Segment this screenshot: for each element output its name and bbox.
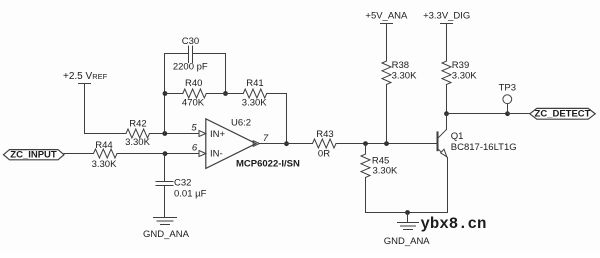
svg-text:GND_ANA: GND_ANA [384,236,431,247]
wire R43 to Q1 base [336,143,437,145]
svg-text:C32: C32 [174,177,191,188]
svg-text:3.30K: 3.30K [125,137,150,148]
svg-text:7: 7 [263,133,269,144]
junction R45 tap [363,141,368,146]
capacitor C32 [156,182,173,186]
power symbol +5V_ANA [365,10,408,23]
wire node to R40 [165,93,183,95]
power symbol +3.3V_DIG [423,10,470,23]
junction ground tap [405,210,410,215]
wire C30 top right [193,53,226,55]
wire R44 to IN- node [117,153,199,155]
junction feedback left [163,91,168,96]
wire emitter down [447,158,449,213]
wire R38 to base node [386,85,388,144]
capacitor C30 [189,46,193,63]
wire +3.3V_DIG to R39 [446,24,448,62]
svg-text:C30: C30 [182,36,199,47]
junction R38 tap [384,141,389,146]
svg-text:5: 5 [191,122,197,133]
wire R42 to IN+ node [150,133,200,135]
svg-text:3.30K: 3.30K [452,70,477,81]
net flag ZC_DETECT [530,108,595,119]
wire VREF to R42 [85,133,127,135]
svg-text:ybx8.cn: ybx8.cn [421,215,487,233]
wire collector node to TP3 node [447,113,508,115]
svg-text:ZC_INPUT: ZC_INPUT [10,150,57,161]
svg-text:R44: R44 [95,140,112,151]
svg-text:ZC_DETECT: ZC_DETECT [535,109,591,120]
svg-text:6: 6 [192,142,198,153]
svg-text:3.30K: 3.30K [373,166,398,177]
wire feedback to output node [286,94,288,144]
wire C32 to ground [164,186,166,218]
svg-text:R40: R40 [185,78,202,89]
op-amp U6:2 [206,119,256,169]
svg-text:0.01 µF: 0.01 µF [174,189,207,200]
svg-text:BC817-16LT1G: BC817-16LT1G [451,142,517,153]
svg-text:+5V_ANA: +5V_ANA [365,10,408,21]
wire collector up [446,114,448,130]
svg-text:R42: R42 [129,119,146,130]
wire VREF down [84,84,86,134]
junction collector node [444,111,449,116]
wire ZC_INPUT to R44 [64,153,94,155]
wire TP3 node to ZC_DETECT flag [508,113,530,115]
transistor Q1 [438,129,448,157]
wire bottom rail [366,212,448,214]
svg-text:MCP6022-I/SN: MCP6022-I/SN [236,159,300,170]
svg-text:3.30K: 3.30K [92,159,117,170]
wire IN- node to C32 [164,154,166,182]
wire feedback right vertical [225,54,227,94]
junction TP3 node [505,111,510,116]
svg-text:U6:2: U6:2 [231,117,251,128]
svg-text:+2.5 VREF: +2.5 VREF [63,71,108,82]
svg-text:3.30K: 3.30K [242,97,267,108]
svg-text:2200 pF: 2200 pF [173,62,208,73]
svg-text:Q1: Q1 [451,131,464,142]
wire R40 to R41 [206,93,243,95]
resistor R45 [361,154,370,177]
ground GND_ANA right [384,213,431,247]
power symbol +2.5 VREF [63,71,108,83]
wire feedback left vertical [164,54,166,134]
pin 6 arrow IN- [199,151,206,157]
svg-text:R41: R41 [246,78,263,89]
svg-text:GND_ANA: GND_ANA [143,229,190,240]
svg-text:0R: 0R [318,148,330,159]
pin 5 arrow IN+ [199,131,206,137]
wire R41 to output vertical [267,93,287,95]
resistor R39 [442,61,451,85]
svg-text:+3.3V_DIG: +3.3V_DIG [423,10,470,21]
wire output to R43 [260,143,313,145]
resistor R43 [313,139,336,148]
svg-text:R43: R43 [316,129,333,140]
test point TP3 [499,83,516,114]
wire R45 to bottom rail [365,178,367,213]
resistor R44 [94,149,118,158]
resistor R38 [382,61,391,85]
resistor R40 [183,89,206,98]
svg-text:TP3: TP3 [499,83,516,94]
wire C30 top left [165,53,189,55]
svg-text:R39: R39 [452,60,469,71]
junction output node [284,141,289,146]
svg-text:IN+: IN+ [210,129,226,140]
wire R45 tap down [365,144,367,155]
ground GND_ANA left [143,218,190,241]
junction feedback right [223,91,228,96]
wire +5V_ANA to R38 [386,24,388,62]
junction node IN+ [162,131,167,136]
net flag ZC_INPUT [4,150,65,161]
svg-text:R38: R38 [392,60,409,71]
resistor R42 [126,129,149,138]
pin 7 output arrow [253,141,259,147]
svg-text:IN-: IN- [210,149,223,160]
svg-text:3.30K: 3.30K [392,70,417,81]
wire R39 to collector node [446,85,448,114]
junction node IN- [163,151,168,156]
svg-text:470K: 470K [182,97,205,108]
resistor R41 [243,89,266,98]
